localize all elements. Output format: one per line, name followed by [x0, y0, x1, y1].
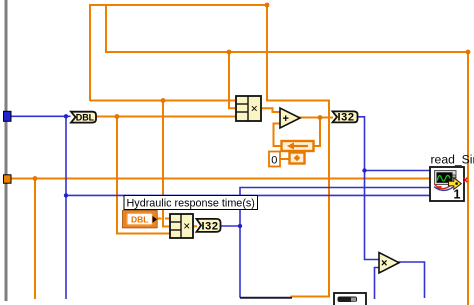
svg-text:I32: I32: [338, 112, 355, 124]
conversion bullet DBL: [71, 112, 96, 123]
wire: orange from top corner down and to feedback column: [267, 4, 329, 297]
svg-text:0: 0: [271, 155, 277, 167]
wire: orange after DBL conversion y116: [95, 116, 237, 118]
multiply triangle node: [379, 253, 399, 274]
svg-text:+: +: [283, 113, 289, 125]
wire: dark segment at bottom: [240, 297, 292, 299]
wire: blue horizontal y195 to read_Sin: [66, 194, 431, 196]
svg-text:×: ×: [251, 102, 258, 116]
wire: zero constant to initializer: [279, 158, 290, 160]
junction dot blue: [64, 114, 68, 118]
bottom subVI box (cut off): [334, 293, 366, 305]
svg-text:Hydraulic response time(s): Hydraulic response time(s): [127, 198, 255, 210]
wire: orange inner vertical: [105, 4, 107, 53]
wire: branch down to multiply middle input: [229, 52, 237, 108]
wire: orange right edge vertical: [467, 52, 469, 305]
junction dot blue: [64, 193, 68, 197]
svg-text:×: ×: [381, 258, 387, 270]
I32 label 2: [197, 219, 221, 233]
wire: branch down at x163 to multiply2 middle input: [163, 101, 171, 227]
wire: branch down at x117 to multiply2 bottom input: [117, 117, 171, 234]
subVI read_Sin icon: [430, 167, 464, 202]
junction dot blue: [362, 168, 366, 172]
svg-text:×: ×: [183, 219, 190, 233]
wire: I32 output down right side: [358, 117, 381, 260]
wire: blue vertical x66: [65, 116, 67, 299]
coercion x mark: [464, 178, 468, 183]
svg-text:1: 1: [454, 188, 461, 202]
wire: branch down to feedback node input: [313, 118, 320, 147]
wire: branch to read_Sin first input: [365, 170, 432, 172]
junction dot: [161, 98, 166, 103]
tunnel blue DBL: [4, 111, 12, 121]
wire: multiply triangle output down: [398, 262, 425, 298]
wire: blue vertical x240 and horizontal y187 to read_Sin: [240, 188, 431, 298]
multiply node (compound) M1: [236, 96, 261, 121]
wire: add output to I32: [299, 117, 333, 119]
svg-text:I32: I32: [202, 221, 219, 233]
wire: dashed from DBL control: [157, 218, 171, 220]
wire: orange from tunnel y178 to read_Sin input: [11, 178, 431, 180]
junction dot right: [466, 50, 471, 55]
wire: orange long horizontal y52: [105, 51, 468, 53]
wire: orange horizontal y100 to multiply top input: [90, 100, 237, 102]
wire: orange top loop vertical left: [90, 5, 268, 101]
feedback initializer terminal: [290, 153, 305, 164]
add node (triangle +): [280, 108, 300, 128]
wire: I32-2 output to x240: [220, 225, 240, 227]
wire: blue from tunnel to DBL conversion: [11, 115, 71, 117]
constant 0: [269, 152, 280, 167]
wire: multiply triangle lower input from bottom: [375, 268, 381, 300]
node junction dot top: [265, 3, 270, 8]
junction dot: [227, 50, 232, 55]
junction dot blue: [238, 224, 242, 228]
junction dot: [33, 176, 38, 181]
multiply node (compound) M2: [170, 214, 193, 238]
tunnel orange: [4, 175, 12, 183]
junction dot: [318, 115, 323, 120]
svg-text:DBL: DBL: [131, 214, 148, 224]
junction dot: [115, 114, 120, 119]
wire: branch down at x35: [34, 179, 36, 300]
I32 label 1: [333, 111, 358, 123]
wire: feedback output loop to add lower input: [274, 124, 283, 147]
feedback node: [282, 141, 314, 151]
svg-text:read_Sin: read_Sin: [431, 153, 474, 167]
wire: multiply2 output to I32: [193, 225, 197, 227]
label: Hydraulic response time(s): [124, 196, 258, 210]
control terminal DBL (orange): [123, 211, 158, 228]
while-loop left border: [5, 0, 8, 301]
wire: multiply1 output to add input: [261, 108, 281, 112]
svg-text:DBL: DBL: [76, 112, 95, 122]
